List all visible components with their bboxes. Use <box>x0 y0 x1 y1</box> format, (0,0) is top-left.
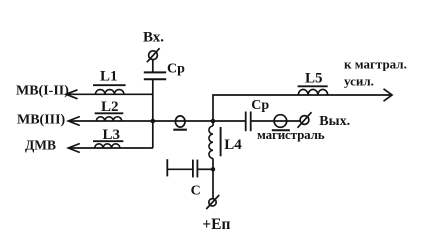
node junction C/L4 <box>211 167 215 171</box>
wire stub to C <box>167 168 193 170</box>
wire junction up and to output arrow <box>213 89 392 121</box>
svg-text:МВ(I-II): МВ(I-II) <box>16 84 69 99</box>
wire C to L4 line <box>197 168 213 170</box>
connector XW1 input (circle with slash) <box>147 48 160 62</box>
wire cap to trunk tap <box>251 120 300 122</box>
wire input connector to Cp <box>152 59 154 72</box>
capacitor Cp (input coupling) <box>144 72 166 79</box>
svg-text:C: C <box>191 184 201 199</box>
svg-text:к магтрал.: к магтрал. <box>344 57 407 72</box>
wire vertical bus <box>152 79 154 148</box>
node junction bus/row2 <box>151 119 156 124</box>
capacitor C <box>193 160 198 178</box>
svg-text:магистраль: магистраль <box>257 127 325 142</box>
svg-text:L4: L4 <box>224 137 242 153</box>
wire L4 down to +Еп connector <box>212 158 214 198</box>
svg-text:ДМВ: ДМВ <box>25 138 56 153</box>
connector Вых. (circle with slash) <box>298 112 312 128</box>
inductor L3 <box>93 127 123 148</box>
inductor L1 <box>93 69 126 95</box>
wire row 3 with arrow <box>68 144 153 153</box>
trunk tap магистраль (circle with base bar) <box>272 115 290 131</box>
wire row 2 with arrow <box>68 117 245 126</box>
svg-text:L1: L1 <box>100 69 118 85</box>
svg-text:усил.: усил. <box>344 74 374 89</box>
wire row 1 with arrow <box>66 90 153 99</box>
inductor L4 (vertical) <box>209 121 242 158</box>
inductor L5 <box>298 70 328 95</box>
svg-text:МВ(III): МВ(III) <box>17 112 66 127</box>
feedthrough tap (circle on line with base bar) <box>173 116 187 130</box>
node junction main <box>211 119 216 124</box>
svg-text:Вх.: Вх. <box>143 30 164 46</box>
svg-text:L5: L5 <box>305 70 323 86</box>
inductor L2 <box>95 99 124 121</box>
capacitor C branch: open stub terminal <box>166 159 168 176</box>
svg-text:Ср: Ср <box>251 98 269 113</box>
svg-text:+Еп: +Еп <box>202 216 230 233</box>
svg-text:Ср: Ср <box>167 61 185 76</box>
connector +Еп (circle with slash) <box>206 195 219 209</box>
capacitor Ср (output coupling) <box>246 112 251 132</box>
svg-text:Вых.: Вых. <box>319 114 350 129</box>
